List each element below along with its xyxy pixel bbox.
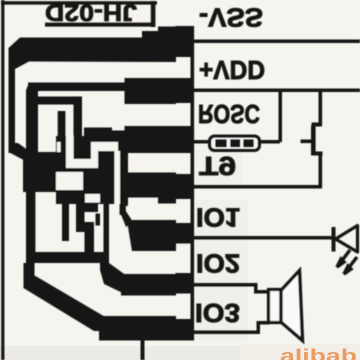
maze H bar y203 bbox=[76, 203, 98, 212]
emitter vertical bbox=[319, 153, 323, 189]
wire IO1 bbox=[194, 236, 333, 240]
white notch top-left bbox=[57, 142, 61, 152]
wire ROSC left lead bbox=[194, 140, 211, 144]
svg-text:IO3: IO3 bbox=[195, 298, 240, 328]
IC pad IO2 bbox=[176, 273, 195, 294]
svg-text:IO1: IO1 bbox=[196, 203, 240, 233]
wire VSS bbox=[194, 40, 360, 44]
svg-text:alibab: alibab bbox=[280, 346, 357, 360]
title box right edge bbox=[151, 1, 156, 27]
svg-text:ROSC: ROSC bbox=[198, 99, 260, 129]
left page border bbox=[1, 0, 4, 360]
white channels of maze bbox=[56, 136, 120, 204]
IC pad IO3 bbox=[176, 319, 195, 341]
wire IO2 to speaker bbox=[254, 290, 270, 294]
IC pad VDD bbox=[176, 78, 195, 103]
trace lower vertical from die pad bbox=[26, 190, 35, 254]
svg-text:+VDD: +VDD bbox=[199, 55, 265, 85]
speaker SP1 cone bbox=[281, 271, 303, 341]
white channel Wa bbox=[66, 136, 74, 159]
trace ROSC thin extension bbox=[84, 128, 112, 140]
IC pad VSS bbox=[176, 26, 195, 57]
wire IO2 step down bbox=[254, 283, 258, 294]
wire IO3 step up bbox=[257, 321, 261, 334]
IC pad IO1 bbox=[176, 223, 195, 244]
trace IO1 band bbox=[128, 220, 176, 251]
wire vertical ROSC to VDD bbox=[279, 91, 283, 142]
svg-text:T9: T9 bbox=[199, 151, 236, 181]
trace lower-left vertical bbox=[24, 263, 35, 279]
maze vertical x62 bbox=[62, 184, 69, 241]
top page border bbox=[1, 1, 157, 4]
trace IO3 band bbox=[99, 316, 176, 341]
scan smudge near T9 bbox=[196, 150, 242, 186]
wire IO3 bbox=[194, 331, 260, 335]
trace VSS bottom corner foot bbox=[9, 144, 19, 153]
IC pad T9 bbox=[176, 174, 195, 199]
title box bottom edge bbox=[45, 23, 155, 27]
white block lower-left bbox=[56, 172, 83, 190]
white channel Wb bbox=[66, 159, 98, 168]
svg-text:JH-02D: JH-02D bbox=[45, 0, 137, 26]
IC pad ROSC bbox=[176, 126, 195, 153]
collector vertical bbox=[319, 92, 323, 125]
trace ROSC block bbox=[125, 126, 177, 153]
trace IO3 bottom stub bbox=[141, 340, 145, 360]
LED D1 arrow 1 bbox=[337, 250, 357, 274]
trace VSS band+vertical bbox=[9, 38, 177, 151]
white channel Wc bbox=[91, 142, 98, 168]
scan smudge bottom right bbox=[240, 344, 360, 360]
trace IO1 column top bbox=[120, 204, 126, 215]
white slit column bbox=[115, 151, 121, 204]
trace big diagonal to IO3 bbox=[24, 276, 108, 331]
scan smudge bottom strip bbox=[0, 346, 240, 360]
trace VDD chamfer vertical bbox=[26, 83, 38, 154]
maze arm y97 bbox=[36, 97, 82, 105]
chip edge spine bbox=[191, 26, 195, 341]
trace band y252 bbox=[26, 252, 109, 263]
maze vertical A bbox=[58, 111, 66, 153]
resistor R1 body bbox=[210, 136, 260, 151]
LED D1 triangle bbox=[336, 226, 358, 253]
maze core base block bbox=[56, 136, 128, 204]
wire ROSC right lead bbox=[258, 140, 280, 144]
base stub bbox=[301, 140, 312, 144]
die pad blob bbox=[23, 152, 63, 192]
resistor R1 inner segments bbox=[216, 140, 254, 148]
white square bottom bbox=[85, 194, 100, 203]
LED D1 cathode bar bbox=[332, 227, 336, 252]
svg-text:-VSS: -VSS bbox=[199, 3, 263, 33]
maze vertical x76 bbox=[76, 212, 85, 232]
trace IO2 band bbox=[121, 274, 176, 296]
transistor Q1 bbox=[301, 92, 323, 189]
LED D1 arrow 2 bbox=[347, 257, 357, 270]
wire VDD bbox=[194, 89, 360, 93]
trace VDD bar bbox=[28, 83, 127, 92]
scan smudge labels col bbox=[196, 200, 248, 340]
trace T9 band bbox=[126, 173, 176, 198]
wire IO2 bbox=[194, 283, 258, 287]
white channel Wd bbox=[91, 142, 118, 151]
wire T9 bbox=[194, 185, 322, 189]
maze vertical x84 bbox=[85, 222, 95, 253]
trace IO2 blob link bbox=[100, 263, 127, 295]
collector jog bbox=[312, 123, 323, 127]
emitter jog bbox=[312, 152, 323, 156]
trace VSS widen near pad bbox=[142, 31, 176, 39]
wire IO3 to speaker bbox=[257, 321, 270, 325]
speaker SP1 driver box bbox=[269, 290, 282, 323]
trace VDD block near pad bbox=[125, 78, 177, 104]
trace IO1 jog bbox=[120, 211, 133, 227]
maze central vertical bbox=[104, 204, 110, 270]
transistor bar bbox=[311, 126, 316, 156]
trace diagonal into die pad bbox=[9, 143, 34, 165]
maze small vertical bbox=[96, 214, 101, 226]
maze col B bbox=[74, 102, 83, 163]
svg-text:IO2: IO2 bbox=[196, 249, 240, 279]
maze column x120 bbox=[120, 139, 128, 206]
